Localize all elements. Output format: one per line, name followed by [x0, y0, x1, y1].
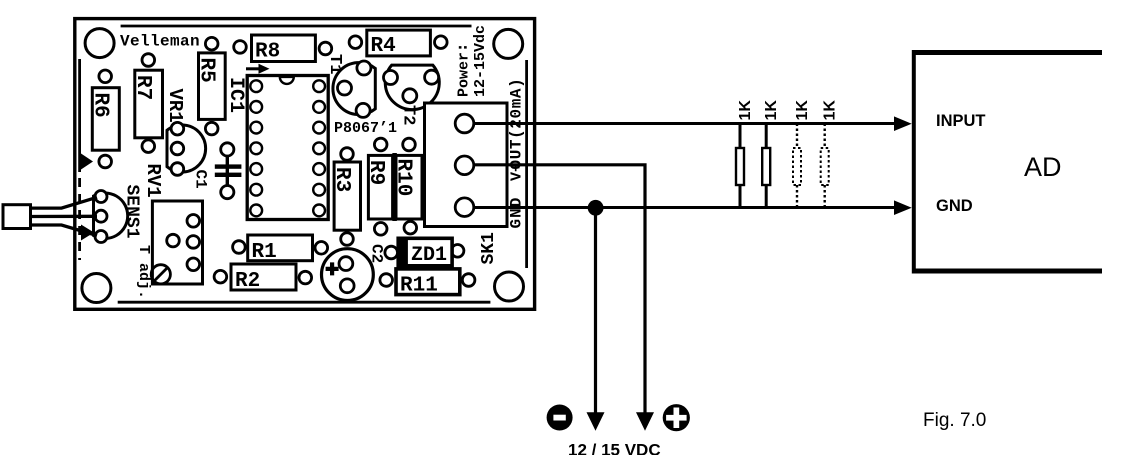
svg-text:VR1: VR1	[164, 89, 186, 123]
resistor R6	[89, 70, 120, 168]
resistor R4	[349, 30, 447, 58]
minus symbol	[547, 405, 573, 431]
svg-text:GND: GND	[936, 197, 973, 215]
sensor wire middle	[31, 215, 98, 218]
svg-text:Power∶: Power∶	[456, 43, 473, 97]
zener diode ZD1	[385, 237, 464, 268]
marker triangle lower	[81, 225, 94, 241]
transistor VR1	[164, 89, 206, 176]
silkscreen right line	[525, 60, 528, 268]
svg-text:12 / 15 VDC: 12 / 15 VDC	[568, 440, 661, 455]
svg-text:SK1: SK1	[479, 232, 499, 265]
silkscreen top line	[121, 25, 472, 28]
svg-text:R9: R9	[364, 160, 387, 185]
svg-text:AD: AD	[1024, 152, 1062, 182]
svg-text:R2: R2	[235, 270, 260, 293]
resistor R8	[234, 35, 332, 64]
AD converter box	[912, 50, 1102, 274]
svg-text:R11: R11	[400, 275, 438, 298]
sensor wire bottom	[31, 225, 98, 236]
silkscreen bottom line	[118, 301, 491, 304]
svg-text:Fig. 7.0: Fig. 7.0	[923, 410, 986, 431]
resistor R2	[214, 264, 312, 293]
svg-text:R10: R10	[392, 159, 415, 197]
svg-text:Velleman: Velleman	[120, 32, 200, 50]
svg-text:R7: R7	[131, 75, 154, 100]
resistor R5	[195, 37, 226, 135]
svg-text:SENS1: SENS1	[122, 185, 142, 239]
silkscreen left line solid	[78, 59, 81, 172]
svg-text:RV1: RV1	[142, 164, 164, 198]
mounting hole top-left	[85, 29, 114, 58]
op-amp IC1 socket	[224, 76, 328, 220]
svg-text:T2: T2	[399, 105, 418, 125]
wire GND to AD GND	[474, 206, 897, 209]
resistor R11	[380, 269, 475, 298]
marker triangle upper	[81, 154, 93, 170]
trimmer RV1	[142, 164, 203, 285]
resistor R3	[330, 148, 361, 246]
mounting hole bottom-left	[82, 274, 111, 303]
svg-text:R3: R3	[330, 167, 353, 192]
resistor R9	[364, 138, 393, 235]
svg-text:ZD1: ZD1	[411, 244, 447, 267]
PCB board outline	[75, 19, 535, 310]
svg-text:IC1: IC1	[224, 77, 247, 113]
capacitor C2	[322, 244, 386, 301]
arrowhead plus down	[636, 412, 654, 430]
svg-text:P8067’1: P8067’1	[334, 120, 397, 137]
transistor T1	[325, 54, 375, 117]
svg-text:R1: R1	[252, 241, 277, 264]
wire OUT to AD INPUT	[474, 122, 897, 125]
svg-text:R5: R5	[195, 58, 218, 83]
svg-text:INPUT: INPUT	[936, 112, 986, 130]
mounting hole bottom-right	[495, 272, 524, 301]
arrowhead GND	[894, 200, 912, 215]
svg-text:C1: C1	[192, 170, 210, 189]
plus symbol	[663, 404, 690, 431]
IC1 pin-1 arrow	[246, 64, 270, 74]
resistor 1K #4 dotted	[821, 100, 839, 208]
sensor SENS1	[94, 185, 142, 243]
svg-text:R6: R6	[89, 93, 112, 118]
resistor 1K #2	[762, 100, 780, 208]
svg-text:1K: 1K	[737, 100, 754, 121]
sensor connector plug	[3, 205, 31, 229]
svg-text:R8: R8	[255, 41, 280, 64]
transistor T2	[384, 65, 440, 125]
silkscreen left line dashed	[78, 178, 81, 260]
terminal block SK1	[425, 103, 508, 265]
sensor wire top	[31, 197, 98, 208]
arrowhead INPUT	[894, 116, 912, 131]
resistor R1	[233, 235, 328, 264]
mounting hole top-right	[494, 29, 523, 58]
resistor 1K #1	[736, 100, 754, 208]
wire V+ with bend down	[474, 165, 646, 414]
wire minus down	[594, 208, 597, 414]
capacitor C1	[192, 143, 242, 199]
svg-text:R4: R4	[371, 35, 396, 58]
svg-text:C2: C2	[368, 244, 386, 263]
arrowhead minus down	[587, 412, 605, 430]
svg-text:T adj.: T adj.	[135, 245, 152, 299]
svg-text:1K: 1K	[822, 100, 839, 121]
svg-text:GND: GND	[508, 197, 526, 229]
svg-text:12-15Vdc: 12-15Vdc	[472, 25, 489, 97]
junction node on GND wire	[588, 200, 604, 216]
resistor 1K #3 dotted	[793, 100, 811, 208]
svg-text:1K: 1K	[763, 100, 780, 121]
svg-text:T1: T1	[325, 54, 344, 74]
resistor R10	[392, 138, 423, 234]
svg-text:1K: 1K	[794, 100, 811, 121]
resistor R7	[131, 54, 163, 153]
